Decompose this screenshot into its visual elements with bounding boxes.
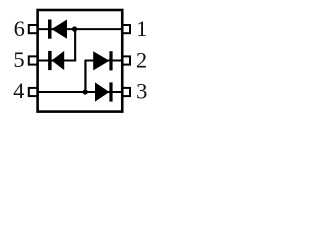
junction dot node A	[72, 26, 77, 31]
svg-text:6: 6	[14, 16, 25, 41]
diode D1 triangle (anode right, points left)	[52, 20, 68, 39]
package outline	[38, 10, 123, 112]
junction dot node B	[83, 89, 88, 94]
pin 1 terminal	[122, 25, 130, 33]
wire vertical node A (row1 dot down to row2)	[74, 29, 76, 60]
diode D1 cathode bar (pin 6)	[48, 20, 52, 39]
diode D4 triangle (points right to pin 3)	[95, 82, 109, 101]
svg-text:2: 2	[136, 48, 147, 73]
diode D2 triangle (points left)	[52, 51, 65, 70]
diode D4 cathode bar	[109, 82, 112, 101]
svg-text:1: 1	[136, 16, 147, 41]
diode D3 cathode bar	[109, 51, 112, 70]
wire pin6 to pin1 (row 1)	[38, 28, 123, 30]
pin 3 terminal	[122, 88, 130, 96]
wire vertical node B (row2 down to row3 dot)	[84, 61, 86, 93]
svg-text:3: 3	[136, 79, 147, 104]
svg-text:4: 4	[13, 78, 24, 103]
pin 5 terminal	[29, 56, 38, 64]
pin 2 terminal	[122, 56, 130, 64]
diode D2 cathode bar (pin 5)	[48, 51, 52, 70]
svg-text:5: 5	[13, 47, 24, 72]
pin 6 terminal	[29, 25, 38, 33]
wire node B stub to pin2 (row 2 right)	[84, 60, 122, 62]
pin 4 terminal	[29, 88, 38, 96]
wire pin5 to node A stub (row 2 left)	[38, 60, 77, 62]
diode D3 triangle (points right to pin 2)	[93, 51, 109, 70]
wire pin4 to pin3 (row 3)	[38, 91, 123, 93]
